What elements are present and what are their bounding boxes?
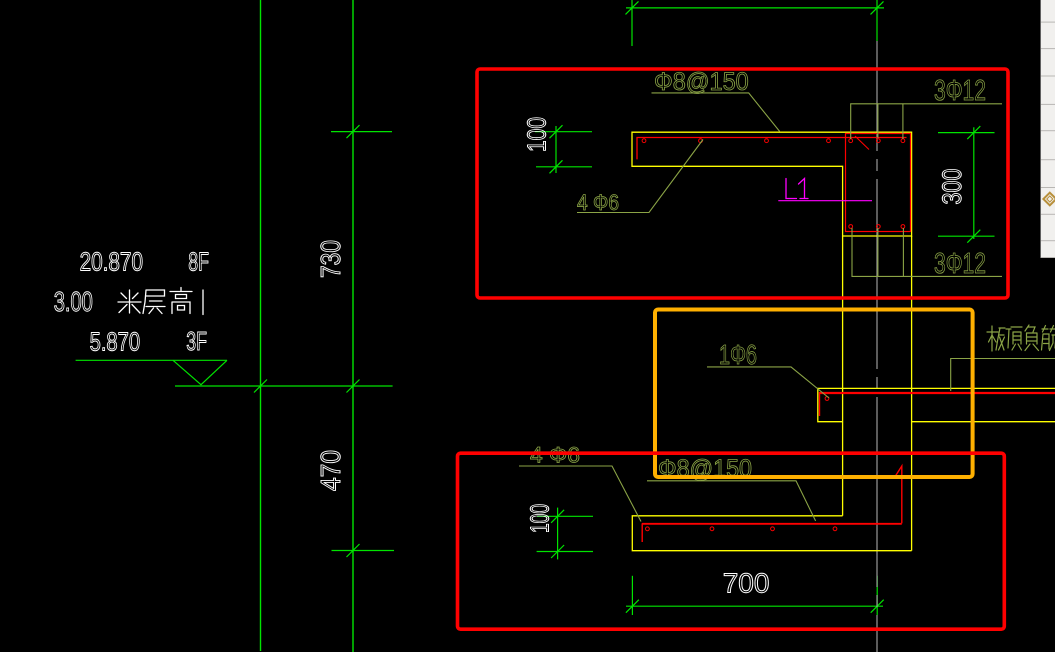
- toolbar icon diamond: [1043, 193, 1055, 206]
- svg-text:730: 730: [315, 240, 346, 278]
- rebar dots beam bottom: [849, 225, 905, 229]
- svg-text:3Φ12: 3Φ12: [934, 75, 986, 107]
- selection box middle (orange): [655, 310, 973, 478]
- level datum line: [76, 359, 227, 361]
- dimension 470 bottom tick: [332, 544, 395, 557]
- dimension 730 top tick: [331, 125, 392, 138]
- leader top-negative-rebar label: [951, 359, 1055, 392]
- leader 3Phi12 top: [851, 104, 1002, 139]
- rebar dots lower slab: [646, 527, 837, 531]
- svg-text:300: 300: [937, 169, 967, 205]
- level triangle: [173, 360, 227, 384]
- svg-text:3.00: 3.00: [54, 286, 93, 317]
- rebar lower slab (red): [642, 523, 902, 525]
- toolbar separators: [1041, 22, 1055, 257]
- svg-text:1Φ6: 1Φ6: [719, 339, 757, 370]
- char 负: [1025, 325, 1039, 351]
- beam label L1 underline: [778, 200, 872, 202]
- svg-text:3Φ12: 3Φ12: [934, 248, 986, 280]
- svg-text:700: 700: [723, 568, 770, 599]
- wall line left below beam: [842, 236, 844, 516]
- rebar upper slab (red): [637, 138, 907, 160]
- leader 4 Phi6 upper: [577, 140, 703, 213]
- leader 3Phi12 bottom: [852, 228, 1002, 276]
- svg-text:3F: 3F: [186, 326, 207, 356]
- svg-text:4 Φ6: 4 Φ6: [577, 190, 619, 215]
- dimension 300: [938, 126, 995, 243]
- char 筋 (clipped): [1042, 326, 1055, 351]
- char 高: [170, 288, 192, 314]
- svg-text:8F: 8F: [188, 247, 209, 277]
- svg-text:5.870: 5.870: [90, 327, 141, 357]
- selection box lower (red): [458, 453, 1005, 629]
- rebar middle slab (red): [819, 392, 1055, 394]
- char 顶: [1006, 327, 1022, 350]
- dimension 700: [626, 576, 884, 615]
- grid line right / dimension line 730-470: [352, 0, 354, 652]
- level line with ticks: [175, 380, 393, 393]
- selection box upper (red): [477, 69, 1008, 298]
- wall line right below beam: [911, 236, 913, 551]
- dimension 100 lower: [537, 508, 593, 560]
- svg-text:Φ8@150: Φ8@150: [654, 68, 749, 96]
- rebar dots beam top: [849, 139, 905, 143]
- char 板: [987, 326, 1005, 351]
- slab and beam outline upper (yellow): [632, 132, 912, 236]
- toolbar strip right: [1041, 0, 1055, 258]
- svg-text:100: 100: [522, 117, 552, 152]
- chinese label 米层高 | (white strokes): [118, 288, 203, 315]
- rebar dots upper slab: [642, 139, 830, 143]
- char 层: [143, 290, 165, 314]
- dimension 100 upper: [535, 125, 592, 173]
- svg-text:100: 100: [525, 504, 555, 533]
- grid line left: [260, 0, 262, 651]
- char 米: [118, 290, 141, 313]
- leader 4 Phi6 lower: [519, 466, 641, 522]
- svg-text:20.870: 20.870: [80, 247, 143, 277]
- rebar bend diagonal in beam: [855, 136, 869, 150]
- leader Phi8@150 lower: [647, 481, 816, 521]
- text 板顶负筋 (olive strokes): [987, 325, 1055, 351]
- rebar dot middle: [825, 397, 829, 401]
- middle slab outline: [818, 388, 1055, 421]
- center line (grey): [876, 41, 878, 652]
- svg-text:470: 470: [315, 450, 346, 491]
- stirrup L1 (red): [846, 134, 911, 232]
- leader 1Phi6: [707, 367, 829, 398]
- lower slab outline: [632, 516, 911, 551]
- separator bar: [202, 290, 204, 315]
- top dimension line: [626, 0, 885, 46]
- leader Phi8@150 upper: [652, 93, 780, 132]
- beam label L1 (magenta): [786, 179, 808, 199]
